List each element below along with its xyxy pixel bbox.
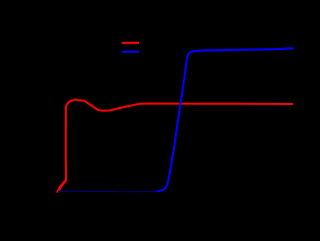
red series curve	[58, 99, 293, 191]
blue series curve: dark flat bottom segment	[58, 190, 157, 192]
red series curve: jagged start segment	[57, 180, 66, 192]
legend red line sample	[122, 42, 139, 44]
legend blue line sample	[122, 51, 139, 53]
blue series curve: rise and top segment	[157, 48, 294, 191]
